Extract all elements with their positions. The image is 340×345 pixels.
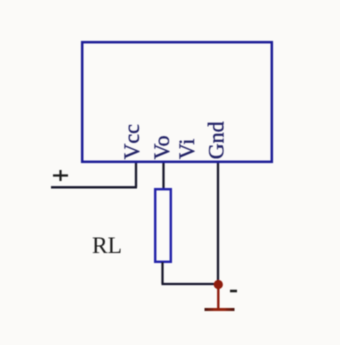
IC box U1 <box>82 42 272 162</box>
wire + supply horizontal <box>51 186 137 188</box>
resistor RL body <box>155 189 171 262</box>
ground stem <box>217 288 219 309</box>
svg-text:Gnd: Gnd <box>203 121 228 159</box>
wire Vo pin to resistor <box>162 163 164 189</box>
wire Vcc pin down <box>135 163 137 187</box>
wire bottom horizontal to junction <box>162 283 219 285</box>
svg-text:Vo: Vo <box>149 135 174 159</box>
plus sign <box>53 170 68 181</box>
ground bar <box>205 308 235 311</box>
wire Gnd pin down to junction <box>217 163 219 284</box>
wire resistor bottom down <box>161 262 163 284</box>
junction node dot <box>214 280 223 289</box>
svg-text:Vi: Vi <box>174 139 199 160</box>
svg-text:Vcc: Vcc <box>119 124 144 160</box>
minus sign <box>230 290 237 293</box>
svg-text:RL: RL <box>92 233 122 259</box>
